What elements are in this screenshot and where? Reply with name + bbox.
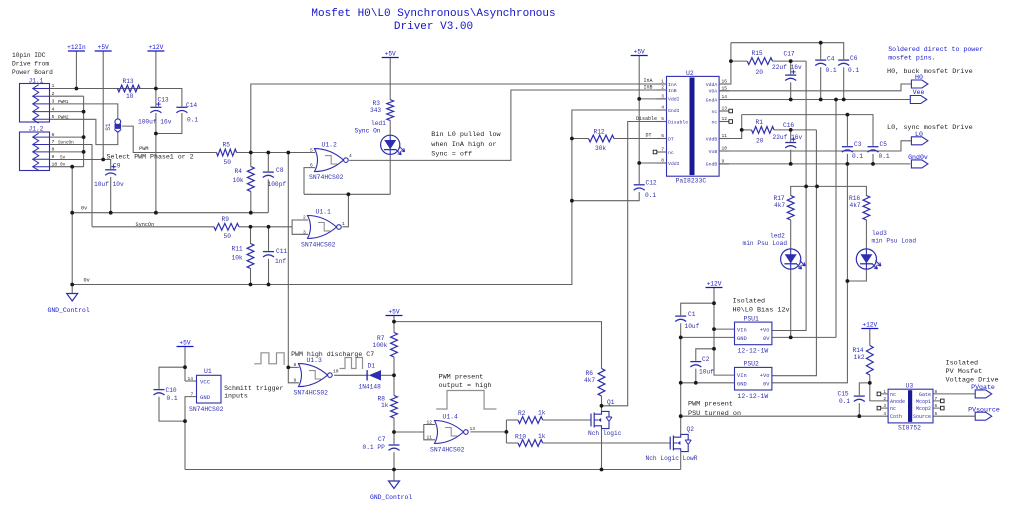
svg-text:4: 4 [661, 105, 664, 111]
wire C1 bottom / PSU gnd column to Q2 drain [680, 323, 682, 434]
junction lower 0v rail / C11 [267, 283, 271, 287]
value R6 4k7 [584, 377, 595, 384]
net label PWM2 [58, 115, 69, 120]
note PWM present PSU line2 [688, 410, 741, 418]
svg-text:0.1 PP: 0.1 PP [363, 444, 386, 451]
wire C4 column [820, 43, 822, 60]
svg-text:13: 13 [470, 426, 476, 432]
net label SyncOn pin7 [58, 141, 74, 146]
label R11 [232, 246, 243, 253]
pin 10 J1.2 [52, 161, 58, 167]
svg-text:C14: C14 [186, 102, 197, 109]
svg-text:when InA high or: when InA high or [431, 141, 496, 149]
value R8 1k [381, 402, 389, 409]
svg-text:0v: 0v [81, 206, 87, 212]
resistor R16 [863, 196, 870, 221]
net label 0v upper rail [81, 206, 87, 212]
svg-text:14: 14 [188, 376, 194, 382]
junction +5V rail / R7 [392, 320, 396, 324]
label Q2 [687, 426, 695, 433]
svg-text:nc: nc [890, 406, 896, 412]
svg-text:Mosfet H0\L0 Synchronous\Async: Mosfet H0\L0 Synchronous\Asynchronous [311, 8, 555, 20]
junction SyncOn / C11 [267, 225, 271, 229]
label R12 [594, 129, 605, 136]
wire +5V rail to R7 and R6 [393, 316, 395, 333]
svg-text:PWM1: PWM1 [58, 100, 69, 105]
junction lower 0v rail / R11 [249, 283, 253, 287]
svg-text:R9: R9 [222, 216, 230, 223]
label U1.4 SN74HCS02 [430, 446, 465, 453]
note PWM present PSU line1 [688, 401, 733, 409]
value R3 343 [370, 107, 381, 114]
wire R2 left stub [506, 419, 518, 421]
svg-text:5: 5 [661, 116, 664, 122]
svg-text:Disable: Disable [636, 116, 657, 122]
svg-text:C10: C10 [166, 387, 177, 394]
svg-text:2: 2 [661, 85, 664, 91]
svg-text:0v: 0v [84, 278, 90, 284]
wire +5V distribution line [394, 322, 602, 369]
svg-text:min Psu Load: min Psu Load [872, 238, 917, 245]
svg-text:VCC: VCC [200, 379, 211, 386]
svg-text:PSU2: PSU2 [744, 361, 760, 368]
note Isolated PV line3 [946, 377, 999, 385]
svg-text:C8: C8 [276, 167, 284, 174]
note Isolated PV line1 [946, 360, 979, 368]
svg-text:D1: D1 [368, 363, 376, 370]
value R1 20 [756, 138, 764, 145]
pin 7 J1.2 [52, 139, 55, 145]
svg-text:led3: led3 [872, 230, 887, 237]
junction pin4 gnd [82, 110, 86, 114]
svg-text:R4: R4 [235, 168, 243, 175]
wire R10 left stub [506, 442, 518, 444]
capacitor C5 plates [868, 147, 879, 152]
svg-text:0.1: 0.1 [167, 395, 178, 402]
value D1 1N4148 [359, 384, 382, 391]
label U2 PaI8233C [676, 177, 707, 184]
svg-text:J1.2: J1.2 [29, 125, 44, 132]
label led2 min Psu Load [743, 240, 788, 247]
svg-text:PWM: PWM [139, 146, 148, 152]
wire C16 top stub [790, 130, 792, 142]
value R2 1k [538, 410, 546, 417]
resistor R14 [866, 346, 873, 376]
note PWM present output line2 [439, 382, 492, 390]
label C9 [113, 163, 121, 170]
svg-text:12: 12 [722, 116, 728, 122]
junction 0v rail / C9 [109, 211, 113, 215]
svg-text:C13: C13 [158, 96, 169, 103]
svg-text:1k: 1k [381, 402, 389, 409]
svg-text:R1: R1 [756, 119, 764, 126]
wire C1 top line [681, 303, 714, 315]
label C14 [186, 102, 197, 109]
resistor R3 [387, 100, 394, 121]
junction +5V col / U2 pin8 [637, 161, 641, 165]
capacitor C1 plates [675, 316, 686, 321]
svg-text:C3: C3 [854, 141, 862, 148]
junction VddA riser / R15 [729, 59, 733, 63]
svg-text:4: 4 [52, 106, 55, 112]
wire R3 to led1 [389, 121, 391, 136]
value C1 10uf [685, 323, 700, 330]
svg-text:9: 9 [722, 158, 725, 164]
junction PSU1 0V / led2 [789, 336, 793, 340]
label D1 [368, 363, 376, 370]
value R11 10k [232, 255, 243, 262]
svg-text:Mcop2: Mcop2 [916, 406, 931, 412]
value C6 0.1 [848, 67, 859, 74]
svg-text:Drive from: Drive from [12, 60, 49, 67]
junction C1 col / PSU1 GND [679, 336, 683, 340]
note PWM high discharge C7 [291, 351, 374, 358]
wire pins 2-4-6-8-10 ground column [83, 96, 85, 167]
capacitor C9 plates [105, 165, 116, 176]
junction lower 0v rail / gnd drop [70, 283, 74, 287]
resistor R6 [598, 369, 605, 397]
wire PWM-present line to U3 Coth [681, 415, 888, 417]
svg-text:VoB: VoB [709, 149, 718, 155]
svg-text:Nch logic: Nch logic [588, 430, 622, 437]
pin 4 U1.2 [349, 153, 352, 159]
wire ground drop to GND_Control [71, 167, 73, 294]
svg-text:SyncOn: SyncOn [136, 222, 155, 228]
svg-text:343: 343 [370, 107, 381, 114]
wire R15 left stub [731, 60, 747, 62]
svg-text:1k2: 1k2 [854, 354, 865, 361]
label U2 [686, 70, 694, 77]
wire C10 bottom line [159, 397, 185, 421]
junction VddA line / C4 [819, 41, 823, 45]
svg-text:R10: R10 [515, 433, 526, 440]
svg-text:12-12-1W: 12-12-1W [738, 348, 769, 355]
wire +5V stem to pin9 line [102, 51, 104, 160]
label R16 [849, 195, 860, 202]
wire J1.2 pin7 SyncOn riser [50, 145, 93, 227]
svg-text:30k: 30k [595, 145, 606, 152]
net label DT [646, 133, 652, 139]
wire R11 bottom [250, 269, 252, 285]
wire C7 bottom to control rail [393, 452, 395, 469]
wire C9 bottom to 0v rail [110, 177, 112, 213]
wire U1.4 input tie bar [424, 425, 435, 440]
label R6 [586, 370, 594, 377]
svg-text:SN74HCS02: SN74HCS02 [294, 389, 329, 396]
label PSU2 12-12-1W [738, 393, 769, 400]
resistor R5 [217, 149, 237, 156]
svg-text:VddI: VddI [668, 97, 680, 103]
junction R17 line / PSU2 +Vo [815, 185, 819, 189]
svg-text:100pf: 100pf [268, 181, 287, 188]
label C6 [850, 55, 858, 62]
svg-text:Gnd0v: Gnd0v [908, 154, 928, 161]
svg-text:nc: nc [890, 392, 896, 398]
svg-text:SI8752: SI8752 [898, 425, 921, 432]
wire R12 right to U2 DT pin [614, 138, 657, 140]
svg-text:Voltage Drive: Voltage Drive [946, 377, 999, 385]
wire U1.1 input tie bar [292, 220, 308, 234]
note Bin L0 line3 [431, 151, 472, 159]
wire R1 left stub [742, 129, 752, 131]
label U1.1 SN74HCS02 [301, 241, 336, 248]
svg-text:C5: C5 [880, 141, 888, 148]
label Q1 Nch logic [588, 430, 622, 437]
svg-text:U1.4: U1.4 [443, 414, 459, 421]
note Bin L0 line2 [431, 141, 496, 149]
value C17 22uf 16v [772, 64, 802, 71]
svg-text:C9: C9 [113, 163, 121, 170]
wire U3 Source to PVsource tag [933, 415, 975, 417]
svg-text:1nf: 1nf [275, 258, 286, 265]
junction C13 C14 bottoms [154, 132, 158, 136]
wire +5V column to U2 VddI pins and C12 [638, 56, 640, 185]
wire C6 bottom [843, 67, 845, 99]
svg-text:VddB: VddB [706, 136, 718, 142]
wire +12V stem to PSU VIn pins [714, 288, 734, 376]
svg-text:50: 50 [224, 233, 232, 240]
wire VOA line to H0 tag [719, 84, 911, 91]
wire InA riser and line to U2 pin1 [251, 84, 657, 153]
svg-text:4: 4 [349, 153, 352, 159]
wire C8 bottom to 0v rail [267, 179, 269, 212]
label C8 [276, 167, 284, 174]
connector J1.1 [20, 84, 50, 124]
net label PWM1 [58, 100, 69, 105]
svg-text:12: 12 [427, 420, 433, 426]
label R4 [235, 168, 243, 175]
wire +12V column through C13 down to 0v rail [155, 51, 157, 107]
svg-text:InA: InA [644, 78, 653, 84]
svg-text:Isolated: Isolated [946, 360, 979, 368]
wire J1.2 pin9 5v line [50, 160, 111, 170]
pin 1 U1.1 [342, 221, 345, 227]
svg-text:10: 10 [52, 161, 58, 167]
power +12V left [147, 44, 164, 51]
note Bin L0 line1 [431, 131, 501, 139]
wire PSU1 VIn stub [714, 328, 735, 330]
svg-text:+12V: +12V [148, 44, 163, 51]
net label 0v pin10 [60, 163, 66, 168]
resistor R15 [747, 58, 772, 65]
svg-text:GndI: GndI [668, 108, 680, 114]
pin 9 J1.2 [52, 154, 55, 160]
capacitor C12 plates [634, 185, 645, 190]
junction +12V col / C2 line [712, 347, 716, 351]
label Sync On [355, 127, 381, 134]
label U1.2 SN74HCS02 [309, 174, 344, 181]
LED led1 Sync On [381, 135, 405, 155]
svg-text:Sync = off: Sync = off [431, 151, 472, 159]
svg-text:6: 6 [310, 163, 313, 169]
svg-text:nc: nc [712, 120, 718, 125]
wire J1.1 pin5 PWM2 to S1 bottom [50, 119, 118, 144]
svg-text:11: 11 [722, 133, 728, 139]
label C3 [854, 141, 862, 148]
svg-text:+5V: +5V [634, 49, 645, 56]
svg-text:SN74HCS02: SN74HCS02 [189, 406, 224, 413]
label C1 [688, 311, 696, 318]
note H0 buck mosfet Drive [887, 68, 973, 76]
wire GndA Vee line [719, 99, 910, 101]
transistor Q1 Nch logic [591, 411, 612, 428]
junction Vee line / C17 [789, 98, 793, 102]
junction PWM / C8 [266, 151, 270, 155]
capacitor C16 plates [785, 137, 796, 148]
junction +5V / U1 VCC [183, 365, 187, 369]
svg-text:1: 1 [52, 83, 55, 89]
node PVsource output tag [968, 406, 1000, 420]
wire control ground rail [185, 469, 681, 471]
junction R15 / C17 [789, 59, 793, 63]
wire R10 to Q2 gate [543, 442, 671, 444]
svg-text:100uf 16v: 100uf 16v [138, 119, 172, 126]
svg-text:6: 6 [52, 132, 55, 138]
wire led3 bottom to PSU2 0V column [847, 269, 866, 281]
junction PSU gnd col / PWM-present line [679, 414, 683, 418]
power +5V R7 [386, 309, 403, 316]
label U1.4 [443, 414, 459, 421]
node H0 output tag [911, 74, 928, 88]
capacitor C13 plates [150, 102, 161, 113]
svg-text:+5V: +5V [98, 44, 109, 51]
power +12V PSU [706, 281, 723, 288]
svg-text:5: 5 [52, 114, 55, 120]
svg-text:22uf 16v: 22uf 16v [773, 134, 803, 141]
junction GndI / R12 [570, 137, 574, 141]
wire PSU2 GND stub [681, 382, 735, 384]
junction Q1 drain / Disable [600, 404, 604, 408]
note Isolated PV line2 [946, 368, 983, 376]
wire R1 right to C16 and PSU2 +Vo column [774, 129, 816, 131]
svg-text:C11: C11 [276, 248, 287, 255]
svg-text:C12: C12 [646, 180, 657, 187]
label Q2 Nch Logic LowR [646, 455, 698, 462]
value C5 0.1 [879, 153, 890, 160]
junction Gnd0v / C5 [871, 162, 875, 166]
capacitor C8 plates [263, 172, 274, 177]
junction GndI / C12 [570, 199, 574, 203]
svg-text:H0\L0 Bias 12v: H0\L0 Bias 12v [733, 307, 790, 315]
value R4 10k [233, 177, 244, 184]
svg-text:C17: C17 [784, 51, 795, 58]
resistor R12 [589, 135, 615, 142]
svg-text:Driver V3.00: Driver V3.00 [394, 21, 473, 33]
junction +12V / pin1 R13 [154, 87, 158, 91]
pin 2 J1.1 [52, 91, 55, 97]
svg-text:U1: U1 [204, 368, 212, 375]
wire C2 top line [696, 349, 714, 361]
label R14 [853, 347, 864, 354]
pin 4 J1.1 [52, 106, 55, 112]
wire J1.2 pin10 0v line [50, 166, 84, 168]
value C10 0.1 [167, 395, 178, 402]
svg-text:Power Board: Power Board [12, 69, 53, 76]
net label SyncOn line [136, 222, 155, 228]
svg-text:10k: 10k [232, 255, 243, 262]
wire U2 pin16 VddA riser [719, 43, 731, 84]
label R1 [756, 119, 764, 126]
svg-text:C15: C15 [838, 391, 849, 398]
junction D1 / R7 R8 [392, 373, 396, 377]
junction R14 / C15 [868, 381, 872, 385]
wire J1.1 pin4 [50, 111, 84, 113]
label U1 GND [200, 394, 211, 401]
svg-text:+5V: +5V [179, 340, 190, 347]
svg-text:+12V: +12V [707, 281, 722, 288]
svg-text:J1.1: J1.1 [29, 78, 44, 85]
svg-text:10uf: 10uf [685, 323, 700, 330]
svg-text:U3: U3 [906, 383, 914, 390]
wire VddA top line to C4 C6 [731, 43, 844, 60]
svg-text:0.1: 0.1 [848, 67, 859, 74]
svg-text:10uf 10v: 10uf 10v [94, 181, 124, 188]
LED led3 min Psu Load [856, 249, 881, 269]
svg-text:3: 3 [303, 230, 306, 236]
note Select PWM Phase [107, 154, 194, 161]
wire U1.2 input2 riser [304, 168, 315, 195]
wire U3 Gate to PVgate tag [933, 393, 975, 395]
label R7 [377, 335, 385, 342]
svg-text:+Vo: +Vo [760, 373, 770, 379]
svg-text:C6: C6 [850, 55, 858, 62]
svg-text:U1.3: U1.3 [307, 357, 323, 364]
resistor R1 [752, 127, 775, 134]
wire PWM column down to U1.3 [287, 153, 289, 368]
svg-text:R2: R2 [518, 410, 526, 417]
wire U1.4 output to R2 R10 ladder [470, 431, 506, 433]
junction +12V col / PSU1 VIn [712, 327, 716, 331]
svg-text:8: 8 [52, 147, 55, 153]
svg-text:1: 1 [342, 221, 345, 227]
wire C12 bottom to GndI column [572, 192, 639, 201]
module PSU2 12-12-1W [735, 367, 772, 390]
label C5 [880, 141, 888, 148]
label PSU1 12-12-1W [738, 348, 769, 355]
wire C17 bottom [790, 82, 792, 99]
label C10 [166, 387, 177, 394]
svg-text:Nch Logic LowR: Nch Logic LowR [646, 455, 698, 462]
svg-text:Source: Source [913, 414, 931, 420]
svg-text:0V: 0V [763, 381, 770, 387]
pin 2 U1.1 [303, 215, 306, 221]
svg-text:+Vo: +Vo [760, 328, 770, 334]
svg-text:VIn: VIn [737, 373, 747, 379]
svg-text:PWM high discharge C7: PWM high discharge C7 [291, 351, 374, 358]
wire feedback line U1.1 output to led1 cathode [304, 193, 390, 195]
svg-text:GndA: GndA [706, 97, 718, 103]
svg-text:mosfet pins.: mosfet pins. [888, 55, 935, 62]
power +5V U2 [631, 49, 648, 56]
svg-text:Isolated: Isolated [733, 298, 766, 306]
svg-text:Q1: Q1 [607, 399, 615, 406]
wire R11 top stub [250, 227, 252, 244]
wire R17 top line with PSU +Vo taps [791, 186, 867, 195]
wire C7 node to U1.4 inputs [394, 431, 424, 433]
capacitor C7 plates [389, 445, 400, 450]
wire C10 top line [159, 367, 185, 389]
wire led1 cathode to feedback line [389, 154, 391, 194]
svg-text:10uf: 10uf [699, 369, 714, 376]
label R13 [123, 78, 134, 85]
net label 0v lower rail [84, 278, 90, 284]
title line 1 [311, 8, 555, 20]
resistor R10 [518, 440, 543, 447]
power +12In [67, 44, 86, 51]
wire R16 to led3 [865, 220, 867, 249]
label C7 [378, 436, 386, 443]
junction VddB line / C3 [846, 113, 850, 117]
